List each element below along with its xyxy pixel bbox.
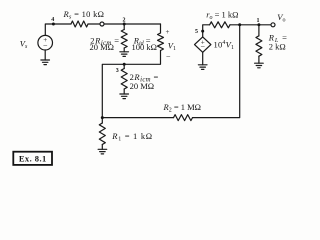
ground for lower 2Ricm xyxy=(120,93,129,95)
wire R2 row left segment xyxy=(102,117,173,119)
label box Ex. 8.1 xyxy=(13,152,52,165)
resistor Rid xyxy=(160,24,162,33)
wire node4 top-left rail xyxy=(45,24,71,35)
ground for controlled source xyxy=(198,64,207,66)
output terminal Vo (open circle) xyxy=(271,23,275,27)
resistor R2 xyxy=(174,115,193,121)
ground for R1 xyxy=(98,148,107,150)
ground for upper 2Ricm xyxy=(120,51,129,53)
controlled source 10^4 V1 (diamond) xyxy=(195,37,211,52)
wire terminal to node2 to Rid corner xyxy=(104,23,160,25)
wire node5 riser and output rail xyxy=(203,25,210,37)
node 3 junction dot xyxy=(123,63,126,66)
node 2 junction dot xyxy=(123,23,126,26)
svg-text:1: 1 xyxy=(257,18,260,24)
svg-text:20 MΩ: 20 MΩ xyxy=(130,81,155,91)
resistor ro xyxy=(210,22,230,28)
input terminal (open circle) xyxy=(100,22,104,26)
svg-text:4: 4 xyxy=(51,17,54,23)
svg-text:−: − xyxy=(166,53,171,62)
ground for RL xyxy=(255,62,264,64)
svg-text:Rs = 10 kΩ: Rs = 10 kΩ xyxy=(63,9,105,21)
svg-text:−: − xyxy=(200,43,205,52)
resistor R1 xyxy=(101,118,103,123)
svg-text:2: 2 xyxy=(123,17,126,23)
svg-text:+: + xyxy=(166,28,170,36)
node 1 junction dot xyxy=(257,23,260,26)
wire dep source bottom lead xyxy=(202,52,204,65)
svg-text:100 kΩ: 100 kΩ xyxy=(132,42,157,52)
svg-text:R2 = 1 MΩ: R2 = 1 MΩ xyxy=(163,102,202,114)
wire Vs bottom lead xyxy=(44,50,46,60)
svg-text:−: − xyxy=(43,41,48,50)
svg-text:R1 = 1 kΩ: R1 = 1 kΩ xyxy=(111,131,153,143)
wire Rs to input terminal xyxy=(88,23,100,25)
junction dot R1-R2 xyxy=(101,116,104,119)
svg-text:3: 3 xyxy=(116,68,119,74)
source Vs (circle) xyxy=(38,35,53,50)
svg-text:20 MΩ: 20 MΩ xyxy=(90,42,115,52)
resistor 2Ricm lower xyxy=(123,64,125,68)
node 5 junction dot xyxy=(201,30,204,33)
wire R2 to output rail riser xyxy=(193,25,240,118)
resistor 2Ricm upper xyxy=(123,24,125,30)
node 4 junction dot xyxy=(52,23,55,26)
svg-text:Ex. 8.1: Ex. 8.1 xyxy=(19,154,47,164)
ground for Vs xyxy=(41,59,50,61)
resistor Rs xyxy=(71,21,88,27)
wire ro to Vo terminal xyxy=(230,24,271,26)
wire Rid bottom to node3 row and down to R1 junction xyxy=(102,51,160,118)
resistor RL xyxy=(258,25,260,36)
svg-text:2 kΩ: 2 kΩ xyxy=(269,42,286,52)
svg-text:5: 5 xyxy=(195,29,198,35)
junction dot output rail to R2 xyxy=(238,23,241,26)
